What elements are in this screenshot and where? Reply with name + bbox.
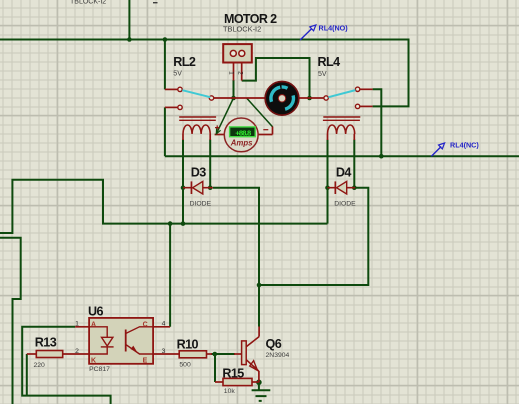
svg-text:A: A <box>91 321 96 328</box>
wire motor right pin to RL4 pole <box>299 97 325 99</box>
svg-text:2N3904: 2N3904 <box>266 352 290 359</box>
wire TBLOCK pin 2 <box>241 62 243 81</box>
wire TBLOCK pin 1 <box>233 62 235 81</box>
wire TBLOCK pin1 to motor node <box>233 80 235 98</box>
wire node A diagonal to ammeter plus <box>216 98 233 134</box>
pin label tick of cropped upper block <box>153 2 158 3</box>
wire RL2 NO pin stub <box>165 106 178 108</box>
node coil branch <box>181 221 186 226</box>
svg-text:U6: U6 <box>88 304 103 318</box>
svg-text:PC817: PC817 <box>89 366 110 373</box>
wire U6 pin1 stub <box>75 326 89 328</box>
resistor R13 <box>36 351 62 358</box>
wire R10 right to Q6 base <box>211 353 235 355</box>
wire RL4(NC) net y=156.2 <box>165 155 519 157</box>
svg-text:DIODE: DIODE <box>190 200 212 207</box>
wire diode anodes to Q6 collector <box>213 188 368 285</box>
wire R13 to U6 pin2 <box>63 353 89 355</box>
node A motor left <box>231 96 236 101</box>
svg-text:R10: R10 <box>177 338 199 352</box>
wire RL4 coil right pin to D4 anode <box>353 140 355 188</box>
svg-text:2: 2 <box>236 71 243 75</box>
node junction top RL2 <box>163 37 168 42</box>
goto flag RL4(NC) <box>431 140 479 156</box>
svg-text:1: 1 <box>228 71 235 75</box>
wire TBLOCK pin2 around to motor right node <box>242 58 310 98</box>
svg-text:D4: D4 <box>336 166 351 180</box>
wire top net RL4(NO) y=39.5 <box>0 40 409 107</box>
svg-text:E: E <box>143 357 148 364</box>
optocoupler U6 PC817 <box>89 318 153 364</box>
relay RL4 coil <box>323 117 360 134</box>
relay RL2 coil <box>179 117 216 134</box>
node collector branch <box>257 283 262 288</box>
svg-text:10k: 10k <box>224 388 236 395</box>
wire RL2 pole to motor left pin <box>214 97 266 99</box>
wire branch to U6 pin4 <box>169 224 171 327</box>
wire base stub <box>234 353 242 355</box>
svg-text:4: 4 <box>162 321 166 328</box>
wire Q6 emitter to ground <box>258 382 260 390</box>
node Q6 base / R15 <box>213 352 218 357</box>
node D3 cathode <box>181 185 186 190</box>
ground <box>252 390 271 401</box>
wire Q6 collector riser <box>258 327 260 337</box>
diode D4 <box>335 181 347 194</box>
wire D3 leads <box>183 187 213 189</box>
wire ammeter left lead <box>215 134 225 136</box>
svg-text:5V: 5V <box>173 71 182 78</box>
wire R13 left lead <box>27 353 37 355</box>
wire RL4 coil pin stubs <box>328 134 355 140</box>
svg-text:500: 500 <box>179 362 191 369</box>
wire RL4 NC pin stub <box>360 105 373 107</box>
svg-text:Amps: Amps <box>230 139 253 148</box>
svg-text:220: 220 <box>34 362 46 369</box>
svg-text:R15: R15 <box>222 367 244 381</box>
wire RL4 coil left pin / D4 cathode branch <box>327 140 329 224</box>
svg-text:2: 2 <box>75 348 79 355</box>
svg-text:TBLOCK-I2: TBLOCK-I2 <box>70 0 106 6</box>
node pin4 branch <box>168 221 173 226</box>
wire R15 tap from base node <box>214 354 216 382</box>
node RL4(NC) net <box>379 154 384 159</box>
node junction top tblock <box>127 37 132 42</box>
wire U6 pin3 to R10 <box>153 353 179 355</box>
svg-text:+88.8: +88.8 <box>235 128 251 137</box>
wire U6 pin4 stub <box>153 326 170 328</box>
wire arrowhead at ammeter plus <box>216 128 220 133</box>
wire RL2 coil right pin to D3 anode <box>209 140 211 188</box>
resistor R15 <box>223 378 252 385</box>
wire upper terminal block pin down to top net <box>128 0 130 40</box>
relay RL2 contacts <box>178 87 214 109</box>
node motor right <box>307 96 312 101</box>
node D3 anode coil <box>208 185 213 190</box>
wire Q6 emitter drop <box>258 371 260 382</box>
transistor Q6 2N3904 <box>242 337 260 372</box>
svg-text:Q6: Q6 <box>266 337 282 351</box>
wire R15 left lead <box>215 381 223 383</box>
wire RL2 NO contact down to RL4(NC) net <box>164 107 166 156</box>
wire left net into D4 cathode branch <box>0 180 328 233</box>
wire D4 leads <box>328 187 356 189</box>
svg-text:RL4(NO): RL4(NO) <box>319 23 349 32</box>
wire motor left pin diagonal to ammeter minus <box>247 98 273 127</box>
svg-text:DIODE: DIODE <box>334 200 356 207</box>
svg-text:K: K <box>91 357 96 364</box>
svg-text:RL4(NC): RL4(NC) <box>450 140 479 149</box>
wire R13 left to bottom net <box>26 354 28 396</box>
wire left lower net W2 <box>0 238 21 404</box>
wire ammeter minus riser <box>272 127 274 135</box>
ammeter (Amps) <box>215 118 268 152</box>
wire RL4 NO contact to RL4(NC) net <box>373 89 382 156</box>
svg-text:RL4: RL4 <box>318 55 341 69</box>
svg-text:D3: D3 <box>191 166 206 180</box>
wire Q6 collector up <box>258 285 260 327</box>
node D4 anode coil <box>352 185 357 190</box>
wire RL4 NO pin stub <box>360 88 373 90</box>
terminal block J motor2 TBLOCK-I2 <box>223 44 252 62</box>
wire ammeter right lead <box>258 134 273 136</box>
wire R10 right lead <box>207 353 213 355</box>
node D4 cathode <box>325 185 330 190</box>
wire U6 pin1 to bottom net <box>22 327 110 404</box>
svg-text:1: 1 <box>75 321 79 328</box>
svg-text:R13: R13 <box>35 336 57 350</box>
relay RL4 contacts <box>324 87 360 109</box>
svg-text:C: C <box>143 321 148 328</box>
wire top net to RL2 NC contact <box>164 40 166 90</box>
goto flag RL4(NO) <box>300 23 348 40</box>
svg-text:5V: 5V <box>318 71 327 78</box>
svg-text:3: 3 <box>162 348 166 355</box>
wire RL2 coil left pin / D3 cathode branch <box>182 140 184 224</box>
diode D3 <box>191 181 203 194</box>
svg-text:RL2: RL2 <box>173 55 196 69</box>
wire RL2 coil pin stubs <box>183 134 210 140</box>
node Q6 emitter / R15 <box>256 380 262 386</box>
wire RL2 NC pin stub <box>165 88 178 90</box>
RED_LEADS <box>27 62 373 382</box>
resistor R10 <box>179 351 206 358</box>
motor M (animated dc motor symbol) <box>265 82 299 116</box>
wire R15 right lead <box>252 381 259 383</box>
svg-text:TBLOCK-I2: TBLOCK-I2 <box>223 25 261 34</box>
